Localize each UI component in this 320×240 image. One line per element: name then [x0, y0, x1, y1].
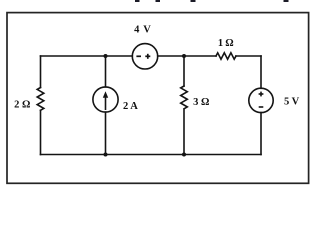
svg-text:3 Ω: 3 Ω — [193, 97, 209, 108]
svg-text:5 V: 5 V — [284, 96, 300, 107]
svg-text:2 Ω: 2 Ω — [14, 100, 30, 111]
svg-text:1 Ω: 1 Ω — [218, 38, 234, 49]
svg-text:4 V: 4 V — [134, 25, 151, 36]
svg-text:2 A: 2 A — [123, 101, 138, 112]
